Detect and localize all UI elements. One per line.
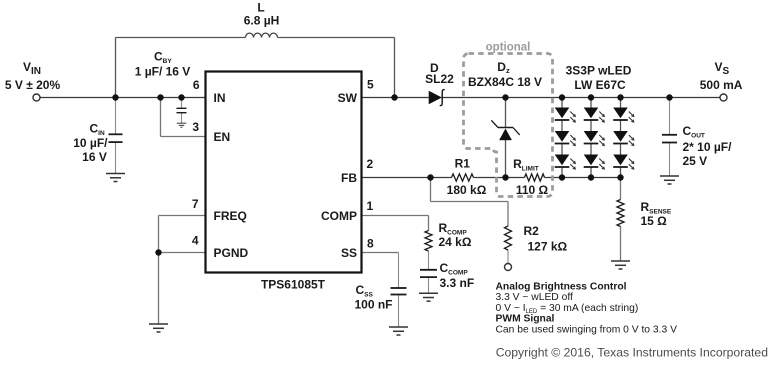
svg-text:3: 3 [192,120,199,134]
svg-text:4: 4 [192,234,199,248]
svg-text:110 Ω: 110 Ω [516,183,549,197]
svg-text:SL22: SL22 [425,72,454,86]
svg-text:3.3 nF: 3.3 nF [440,276,475,290]
svg-text:optional: optional [486,41,531,53]
svg-text:Can be used swinging from 0 V: Can be used swinging from 0 V to 3.3 V [496,325,678,336]
svg-text:LW E67C: LW E67C [574,78,626,92]
svg-text:100 nF: 100 nF [355,298,393,312]
svg-text:16 V: 16 V [82,150,107,164]
svg-text:15 Ω: 15 Ω [641,214,668,228]
svg-text:PGND: PGND [214,246,249,260]
svg-text:25 V: 25 V [683,154,708,168]
svg-text:COMP: COMP [321,209,357,223]
svg-text:3.3 V ~ wLED off: 3.3 V ~ wLED off [496,292,574,303]
svg-text:7: 7 [192,197,199,211]
svg-text:6.8 µH: 6.8 µH [244,14,280,28]
svg-text:BZX84C 18 V: BZX84C 18 V [468,75,542,89]
svg-text:SS: SS [341,246,357,260]
svg-text:500 mA: 500 mA [700,78,743,92]
svg-text:2: 2 [367,157,374,171]
svg-text:127 kΩ: 127 kΩ [528,240,568,254]
svg-text:IN: IN [214,91,226,105]
svg-text:6: 6 [193,78,200,92]
svg-text:TPS61085T: TPS61085T [261,278,326,292]
svg-text:R2: R2 [524,224,540,238]
svg-text:5 V ± 20%: 5 V ± 20% [5,78,61,92]
svg-text:5: 5 [367,78,374,92]
svg-text:1 µF/ 16 V: 1 µF/ 16 V [135,65,191,79]
svg-text:180 kΩ: 180 kΩ [447,183,487,197]
svg-text:L: L [257,1,264,15]
svg-text:PWM Signal: PWM Signal [496,314,555,325]
svg-text:24 kΩ: 24 kΩ [439,235,472,249]
svg-text:SW: SW [338,91,358,105]
svg-text:Copyright © 2016, Texas Instru: Copyright © 2016, Texas Instruments Inco… [496,346,768,360]
svg-text:EN: EN [214,130,231,144]
svg-text:2* 10 µF/: 2* 10 µF/ [683,140,733,154]
svg-text:FREQ: FREQ [214,209,247,223]
svg-text:3S3P wLED: 3S3P wLED [566,63,632,77]
svg-text:1: 1 [367,199,374,213]
svg-text:R1: R1 [455,157,471,171]
svg-text:Analog Brightness Control: Analog Brightness Control [496,281,627,292]
svg-text:FB: FB [341,171,357,185]
svg-text:10 µF/: 10 µF/ [73,136,108,150]
svg-text:8: 8 [367,237,374,251]
